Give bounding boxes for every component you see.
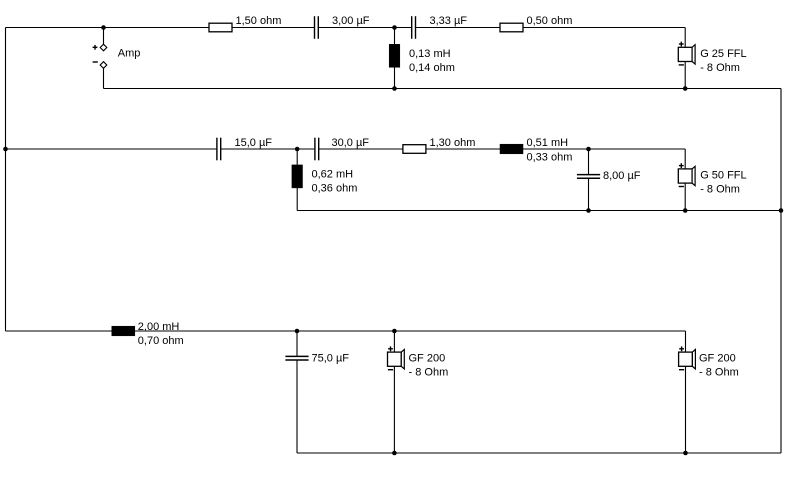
label C1 value 3,00 µF <box>332 15 370 27</box>
node amp tap <box>101 25 106 30</box>
svg-text:0,36 ohm: 0,36 ohm <box>312 183 358 195</box>
label L1 value 0,13 mH <box>409 48 451 60</box>
node mid speaker return <box>683 208 688 213</box>
node woofer2 return <box>683 451 688 456</box>
wire mid shunt inductor upper <box>296 149 298 165</box>
svg-text:30,0 µF: 30,0 µF <box>332 137 370 149</box>
svg-text:Amp: Amp <box>118 47 141 59</box>
wire woofer2 drop bottom <box>685 366 687 453</box>
wire mid shunt cap lower <box>588 178 590 210</box>
node top shunt bottom <box>392 86 397 91</box>
svg-text:75,0 µF: 75,0 µF <box>312 353 350 365</box>
label C2 value 3,33 µF <box>430 15 468 27</box>
label GF 200 #1 <box>409 353 446 365</box>
speaker G50 plus sign <box>679 163 684 168</box>
capacitor C1 <box>315 16 319 39</box>
capacitor C2 <box>412 16 416 39</box>
label C5 value 8,00 µF <box>603 170 641 182</box>
speaker G 25 FFL <box>678 45 695 64</box>
svg-text:- 8 Ohm: - 8 Ohm <box>699 367 739 379</box>
svg-text:0,50 ohm: 0,50 ohm <box>527 15 573 27</box>
node mid shunt cap top <box>586 147 591 152</box>
svg-text:15,0 µF: 15,0 µF <box>235 137 273 149</box>
label R2 value 0,50 ohm <box>527 15 573 27</box>
svg-text:0,14 ohm: 0,14 ohm <box>409 62 455 74</box>
speaker GF200-2 plus sign <box>679 346 684 351</box>
svg-text:0,13 mH: 0,13 mH <box>409 48 451 60</box>
label L2 value 0,36 ohm <box>312 183 358 195</box>
speaker GF200-1 plus sign <box>388 346 393 351</box>
node mid return right rail <box>779 208 784 213</box>
wire top shunt lower <box>394 67 396 88</box>
capacitor C5 (shunt) <box>577 175 600 179</box>
svg-text:0,33 ohm: 0,33 ohm <box>527 152 573 164</box>
wire top shunt upper <box>394 28 396 45</box>
label C6 value 75,0 µF <box>312 353 350 365</box>
label R3 value 1,30 ohm <box>430 137 476 149</box>
wire right rail <box>780 89 782 454</box>
label L3 value 0,33 ohm <box>527 152 573 164</box>
label GF200-1 impedance - 8 Ohm <box>409 367 449 379</box>
wire woofer1 drop bottom <box>393 366 395 453</box>
svg-text:0,51 mH: 0,51 mH <box>527 137 569 149</box>
wire mid speaker drop top <box>684 149 686 169</box>
wire mid speaker drop bottom <box>684 183 686 210</box>
inductor L4 (series bottom) <box>112 326 135 336</box>
speaker GF200-2 minus sign <box>679 369 684 371</box>
resistor R3 <box>403 145 426 154</box>
speaker GF 200 #2 <box>679 350 696 369</box>
wire bottom shunt cap lower <box>296 360 298 453</box>
node woofer1 return <box>392 451 397 456</box>
amp terminal - (diamond) <box>100 62 107 69</box>
wire top branch segment B <box>318 27 411 29</box>
label R1 value 1,50 ohm <box>236 15 282 27</box>
wire woofer1 drop top <box>393 331 395 352</box>
svg-text:- 8 Ohm: - 8 Ohm <box>700 184 740 196</box>
resistor R2 <box>500 23 523 32</box>
svg-text:0,70 ohm: 0,70 ohm <box>138 335 184 347</box>
svg-text:- 8 Ohm: - 8 Ohm <box>409 367 449 379</box>
svg-text:2,00 mH: 2,00 mH <box>138 321 180 333</box>
label C3 value 15,0 µF <box>235 137 273 149</box>
label L2 value 0,62 mH <box>312 169 354 181</box>
wire woofer2 drop top <box>685 331 687 352</box>
node mid branch tap <box>3 147 8 152</box>
amp plus sign <box>93 45 98 50</box>
wire amp positive lead <box>103 28 105 45</box>
wire top branch segment C <box>416 27 686 29</box>
wire bottom branch <box>6 330 686 332</box>
node top shunt top <box>392 25 397 30</box>
node bottom shunt cap top <box>295 329 300 334</box>
svg-text:0,62 mH: 0,62 mH <box>312 169 354 181</box>
wire mid return <box>297 210 781 212</box>
label G 50 FFL <box>700 170 746 182</box>
inductor L2 (mid shunt) <box>292 165 303 188</box>
wire top return <box>104 88 782 90</box>
wire left rail <box>5 28 7 332</box>
label L4 value 2,00 mH <box>138 321 180 333</box>
speaker G25 minus sign <box>679 64 684 66</box>
label Amp <box>118 47 141 59</box>
svg-text:- 8 Ohm: - 8 Ohm <box>700 62 740 74</box>
node mid shunt inductor top <box>295 147 300 152</box>
capacitor C4 <box>315 138 319 161</box>
wire mid shunt cap upper <box>588 149 590 175</box>
speaker G50 minus sign <box>679 186 684 188</box>
amp minus sign <box>93 61 98 63</box>
speaker GF200-1 minus sign <box>388 369 393 371</box>
label L3 value 0,51 mH <box>527 137 569 149</box>
speaker G25 plus sign <box>679 42 684 47</box>
wire top branch segment A <box>6 27 315 29</box>
speaker G 50 FFL <box>678 166 695 185</box>
label G25 impedance - 8 Ohm <box>700 62 740 74</box>
label L4 value 0,70 ohm <box>138 335 184 347</box>
svg-text:G 25 FFL: G 25 FFL <box>700 48 746 60</box>
svg-text:3,00 µF: 3,00 µF <box>332 15 370 27</box>
wire tweeter drop top <box>684 28 686 48</box>
label L1 value 0,14 ohm <box>409 62 455 74</box>
inductor L1 (top shunt) <box>389 44 400 67</box>
inductor L3 (series) <box>500 144 523 154</box>
svg-text:GF 200: GF 200 <box>409 353 446 365</box>
label GF200-2 impedance - 8 Ohm <box>699 367 739 379</box>
capacitor C3 <box>217 138 221 161</box>
label G 25 FFL <box>700 48 746 60</box>
label G50 impedance - 8 Ohm <box>700 184 740 196</box>
svg-text:G 50 FFL: G 50 FFL <box>700 170 746 182</box>
wire mid branch segment C <box>319 148 686 150</box>
wire mid branch segment B <box>221 148 315 150</box>
label GF 200 #2 <box>699 353 736 365</box>
wire mid shunt inductor lower <box>296 188 298 211</box>
wire mid branch segment A <box>6 148 217 150</box>
wire bottom return <box>297 452 781 454</box>
node woofer1 top <box>392 329 397 334</box>
wire bottom shunt cap upper <box>296 331 298 356</box>
svg-text:8,00 µF: 8,00 µF <box>603 170 641 182</box>
node tweeter return <box>683 86 688 91</box>
amp terminal + (diamond) <box>100 44 107 51</box>
svg-text:GF 200: GF 200 <box>699 353 736 365</box>
node mid shunt cap bottom <box>586 208 591 213</box>
resistor R1 <box>209 23 232 32</box>
speaker GF 200 #1 <box>388 350 405 369</box>
label C4 value 30,0 µF <box>332 137 370 149</box>
capacitor C6 (shunt) <box>285 356 308 360</box>
wire amp negative lead <box>103 68 105 88</box>
svg-text:3,33 µF: 3,33 µF <box>430 15 468 27</box>
svg-text:1,50 ohm: 1,50 ohm <box>236 15 282 27</box>
wire tweeter drop bottom <box>684 62 686 89</box>
svg-text:1,30 ohm: 1,30 ohm <box>430 137 476 149</box>
